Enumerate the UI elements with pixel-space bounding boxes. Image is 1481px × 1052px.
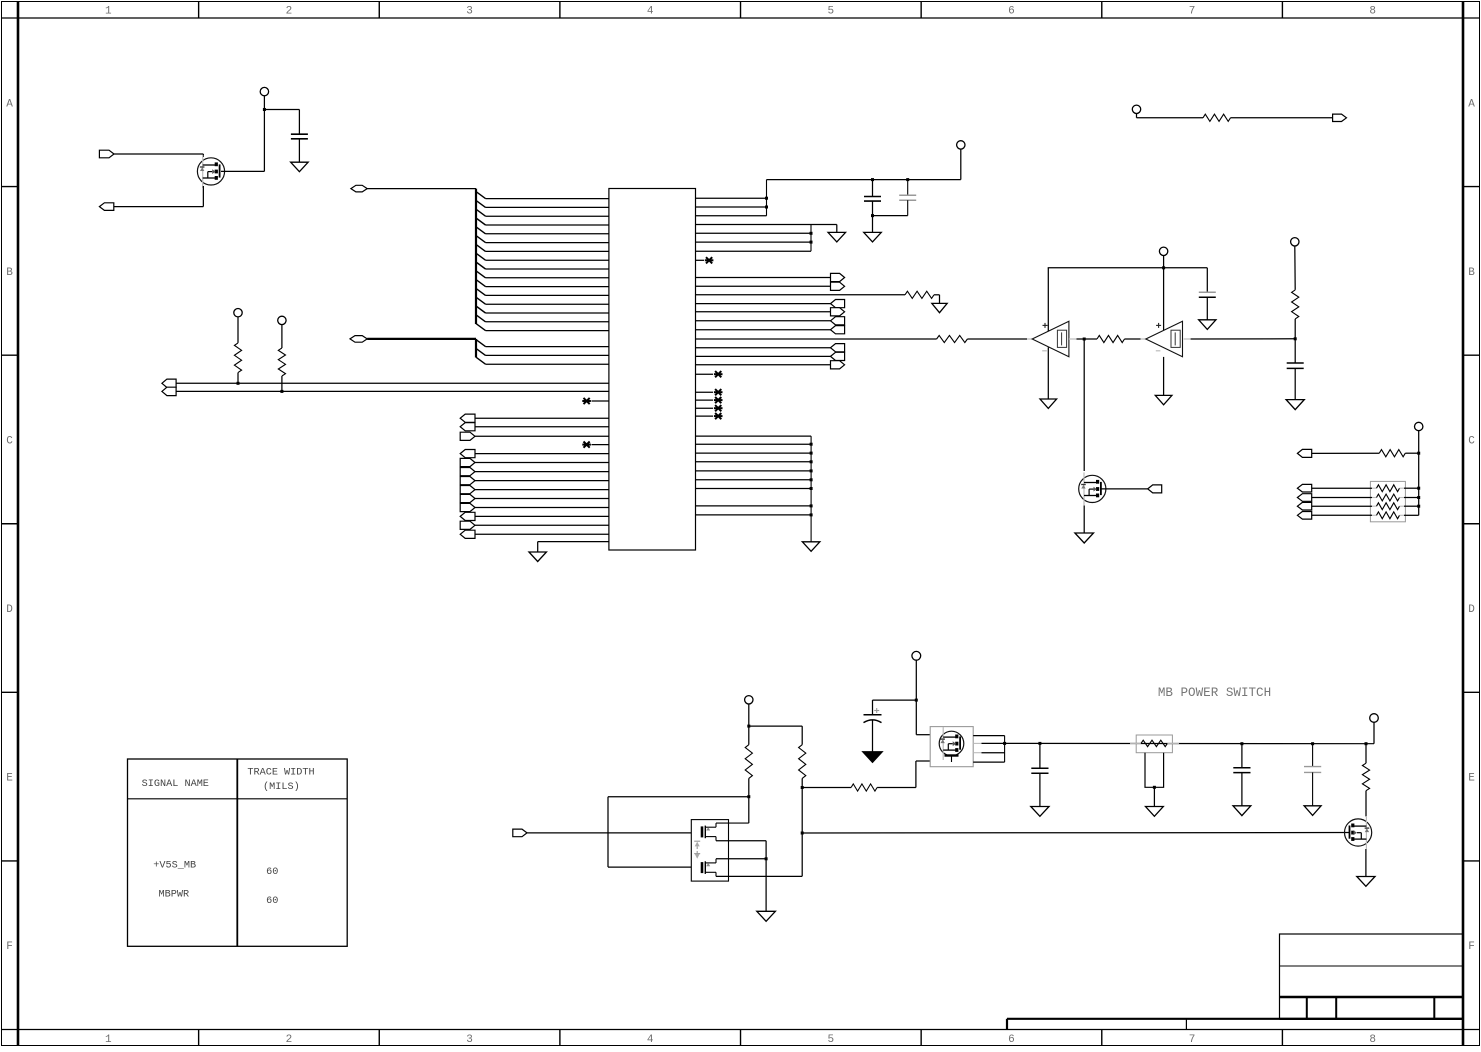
frame left strip line <box>17 2 20 1046</box>
wire R11 top lead <box>801 726 803 745</box>
frame left row divider <box>2 354 19 356</box>
capacitor C7 <box>1031 768 1048 773</box>
power symbol P8 <box>1415 422 1423 430</box>
frame top column divider <box>378 2 380 19</box>
wire C8A to R9 <box>1312 452 1380 454</box>
Q3B body diode (grey) <box>694 851 700 859</box>
wire P7 to R8 <box>1137 117 1204 119</box>
wire port M9 to U1 <box>475 524 609 526</box>
vertical tie gnd group <box>810 225 812 252</box>
svg-text:7: 7 <box>1189 6 1196 18</box>
no-connect X4 <box>714 371 723 377</box>
wire X1 <box>592 400 609 402</box>
wire P10 down <box>915 660 917 735</box>
frame bottom strip line <box>2 1029 1480 1031</box>
port C8B2 <box>1297 494 1311 502</box>
resistor R10 <box>745 745 752 779</box>
signal table outline <box>128 759 348 946</box>
IC U1 <box>609 189 696 551</box>
no-connect X5 <box>714 389 723 395</box>
capacitor C3 (grey) <box>899 195 916 200</box>
wire RS gnd stub <box>1153 787 1155 806</box>
ground G16 <box>1233 806 1251 816</box>
wire U1 right pin top group <box>696 197 767 199</box>
vertical tie top group <box>766 180 768 216</box>
port M4 <box>460 477 475 485</box>
junction dot J11 <box>1162 266 1165 269</box>
pack stub right 4 <box>1400 514 1405 516</box>
frame left row divider <box>2 186 19 188</box>
wire R4 to corner <box>934 294 940 296</box>
svg-text:A: A <box>6 98 13 110</box>
bus tap A10 <box>476 271 486 278</box>
resistor RP1-3 <box>1377 503 1400 510</box>
wire C3 bottom <box>907 200 909 215</box>
wire U1 left pin A11 <box>486 286 609 288</box>
svg-text:A: A <box>1468 98 1475 110</box>
svg-text:B: B <box>1468 267 1475 279</box>
frame top column divider <box>920 2 922 19</box>
wire U2B plus input vertical <box>1163 268 1165 331</box>
wire U2A minus down <box>1047 347 1049 399</box>
ground G10 <box>1286 400 1304 410</box>
wire R13 top lead <box>1365 744 1367 764</box>
wire C1 top <box>298 110 300 135</box>
wire node vertical up <box>263 96 265 172</box>
wire U1 pin to R6p <box>696 329 831 331</box>
frame bottom column divider <box>378 1030 380 1046</box>
wire C3 top <box>907 180 909 196</box>
svg-text:E: E <box>1468 773 1475 785</box>
frame top column divider <box>740 2 742 19</box>
bus2 vertical <box>475 339 477 358</box>
power symbol P1 <box>260 87 268 95</box>
wire C5 bottom <box>1294 368 1296 399</box>
dual MOSFET Q3 box <box>691 820 728 882</box>
U2B input grey stub <box>1141 338 1146 340</box>
port SW <box>513 829 527 837</box>
pack stub right 1 <box>1400 487 1405 489</box>
wire U1 pin rail top <box>696 435 812 437</box>
resistor pack RP1 box <box>1370 481 1405 521</box>
wire port M7 to U1 <box>475 507 609 509</box>
resistor R5 <box>937 335 968 342</box>
capacitor C9 (grey) <box>1304 767 1321 773</box>
svg-text:4: 4 <box>647 6 654 18</box>
RS grey stub left <box>1130 742 1141 744</box>
bus tap A12 <box>476 288 486 295</box>
bus tap A8 <box>476 253 486 260</box>
wire J21 to Q3B drain <box>716 858 766 860</box>
junction dot rail <box>810 504 813 507</box>
power symbol P3 <box>278 316 286 324</box>
bus tap A1 <box>476 192 486 199</box>
wire J12 down to Q2 <box>1083 339 1085 471</box>
svg-text:2: 2 <box>286 6 293 18</box>
port R4p <box>831 308 845 316</box>
wire port M4 to U1 <box>475 480 609 482</box>
wire Q2 source down <box>1083 506 1085 534</box>
wire pack to rail 2 <box>1404 497 1419 499</box>
wire C6 bottom <box>872 720 874 752</box>
ground G1 <box>291 162 309 172</box>
svg-text:60: 60 <box>266 867 278 878</box>
wire port M3 to U1 <box>475 471 609 473</box>
wire U2A output <box>1077 338 1098 340</box>
wire Q4 pin 3 <box>982 752 1005 754</box>
junction dot rail <box>810 443 813 446</box>
ground G17 <box>1304 806 1321 816</box>
port R3p <box>831 300 845 308</box>
wire R11 bottom lead <box>801 778 803 787</box>
wire R2 bottom <box>237 373 239 384</box>
wire U1 right pin to rail <box>696 461 812 463</box>
wire U1 bottom-left ground pin <box>538 541 609 543</box>
wire C6 top <box>872 700 874 715</box>
wire Q3B source pin <box>716 875 802 877</box>
wire port M1 to U1 <box>475 453 609 455</box>
MOSFET Q4 box <box>930 727 973 767</box>
capacitor C1 <box>291 134 308 139</box>
top rail <box>767 179 961 181</box>
wire U1 left pin A1 <box>486 198 609 200</box>
ground G9 <box>1155 395 1172 404</box>
wire U1 left pin A14 <box>486 312 609 314</box>
wire J20 to R12 <box>802 787 851 789</box>
bus tap A3 <box>476 209 486 216</box>
signal table column divider <box>236 759 238 946</box>
wire pack to rail 1 <box>1404 487 1419 489</box>
wire port IN1 to gate <box>114 153 203 155</box>
no-connect X8 <box>714 413 723 419</box>
port Q2OUT <box>1148 485 1162 493</box>
junction dot J29 <box>1365 742 1368 745</box>
power symbol P9 <box>745 696 753 704</box>
wire R13 to Q5 <box>1365 791 1367 817</box>
junction dot J18 <box>747 725 750 728</box>
frame bottom column divider <box>559 1030 561 1046</box>
port M9 <box>460 521 475 529</box>
port A7 <box>1333 114 1347 121</box>
wire Q1 source to port <box>114 206 204 208</box>
junction dot rail <box>810 478 813 481</box>
wire C8B1 to pack <box>1312 487 1372 489</box>
wire C4 bottom <box>1206 297 1208 320</box>
no-connect X6 <box>714 397 723 403</box>
wire C9 top <box>1312 744 1314 767</box>
RS grey stub right <box>1167 742 1179 744</box>
wire Q4 bottom pin <box>916 760 930 762</box>
wire C8B3 to pack <box>1312 505 1372 507</box>
junction dot J15 <box>1417 487 1420 490</box>
wire U1 pin to R9p <box>696 364 831 366</box>
ground G6 <box>802 542 820 552</box>
wire U1 left pin A4 <box>486 224 609 226</box>
svg-text:6: 6 <box>1008 6 1015 18</box>
wire U1 left pin B1 <box>486 346 609 348</box>
title block cell divider 2 <box>1335 997 1337 1019</box>
junction dot J21 <box>765 857 768 860</box>
Q3A drain lead <box>716 822 749 824</box>
port M2 <box>460 458 475 466</box>
svg-text:60: 60 <box>266 896 278 907</box>
ground G7 <box>1199 320 1216 330</box>
wire R10 top lead <box>748 726 750 745</box>
transistor Q4 <box>939 727 964 760</box>
wire U1 left pin A10 <box>486 277 609 279</box>
wire U1 left pin B2 <box>486 354 609 356</box>
title block thick row line <box>1280 996 1464 998</box>
svg-text:C: C <box>1468 435 1475 447</box>
wire C2 top <box>872 180 874 197</box>
wire U1 right pin to rail <box>696 488 812 490</box>
wire C8 top <box>1241 744 1243 768</box>
wire P5 stub <box>1163 256 1165 268</box>
wire U1 right pin top group <box>696 206 767 208</box>
svg-text:+V5S_MB: +V5S_MB <box>153 861 196 872</box>
junction dot J7 <box>906 178 909 181</box>
ground G3 <box>864 232 882 242</box>
no-connect X7 <box>714 405 723 411</box>
right gnd rail vertical <box>810 436 812 542</box>
op-amp U2B <box>1146 321 1183 357</box>
wire U1 right pin top group <box>696 215 767 217</box>
wire C7 bottom <box>1039 773 1041 806</box>
op-amp U2A <box>1032 321 1069 357</box>
bus tap A2 <box>476 200 486 207</box>
svg-text:5: 5 <box>828 6 835 18</box>
no-connect X3 <box>705 257 714 263</box>
wire U1 pin to R7p <box>696 347 831 349</box>
wire U1 right pin gnd group <box>696 232 812 234</box>
wire U1 pin to R4p <box>696 311 831 313</box>
pack stub left 4 <box>1372 514 1377 516</box>
wire U1 right pin to rail <box>696 452 812 454</box>
wire C8B2 to pack <box>1312 497 1372 499</box>
wire Q4 pin 1 <box>973 735 1004 737</box>
frame top column divider <box>1281 2 1283 19</box>
wire J13 to C5 <box>1294 339 1296 363</box>
ground G11 <box>1075 533 1094 543</box>
ground G14 <box>1031 807 1049 817</box>
svg-text:D: D <box>6 604 13 616</box>
svg-text:6: 6 <box>1008 1034 1015 1046</box>
wire X3 <box>696 259 705 261</box>
resistor R11 <box>799 745 806 779</box>
port C8A <box>1297 449 1311 457</box>
wire U1 left pin A8 <box>486 259 609 261</box>
wire port M2 to U1 <box>475 462 609 464</box>
wire loop to Q3 gate <box>608 866 691 868</box>
bus tap A4 <box>476 218 486 225</box>
bus tap A7 <box>476 244 486 251</box>
wire X5 <box>696 391 714 393</box>
svg-text:E: E <box>6 773 13 785</box>
junction dot J5 <box>765 206 768 209</box>
junction dot rail <box>810 460 813 463</box>
bus tap A13 <box>476 297 486 304</box>
Q3A body diode (grey) <box>694 841 700 849</box>
wire R4 corner down <box>939 295 941 304</box>
power symbol P5 <box>1159 247 1167 255</box>
wire U1 right pin gnd group <box>696 224 812 226</box>
port R7p <box>831 344 845 352</box>
bus tap A11 <box>476 280 486 287</box>
junction dot J13 <box>1294 337 1297 340</box>
frame right row divider <box>1463 860 1480 862</box>
frame right row divider <box>1463 523 1480 525</box>
junction dot J28 <box>1311 742 1314 745</box>
frame right strip line <box>1462 2 1465 1046</box>
ground G12 <box>757 911 776 921</box>
svg-text:MBPWR: MBPWR <box>159 890 190 901</box>
wire J19 left <box>608 796 749 798</box>
RS kelvin loop <box>1145 753 1164 788</box>
footer strip divider tick <box>1185 1019 1187 1030</box>
svg-text:3: 3 <box>466 6 473 18</box>
bus tap A9 <box>476 262 486 269</box>
title block bottom thick line <box>1280 1018 1464 1020</box>
port OUT1 <box>99 203 113 211</box>
wire SW to Q3 gate <box>527 832 691 834</box>
frame right row divider <box>1463 354 1480 356</box>
wire tie to ground <box>811 224 837 226</box>
transistor Q3B <box>702 859 716 877</box>
resistor R13 <box>1362 763 1369 790</box>
ground G4 <box>828 232 846 242</box>
wire U1 left pin A2 <box>486 206 609 208</box>
wire Q3B source up <box>801 788 803 877</box>
wire X6 <box>696 399 714 401</box>
svg-text:4: 4 <box>647 1034 654 1046</box>
junction dot J1 <box>263 108 266 111</box>
no-connect X1 <box>582 398 591 404</box>
capacitor C5 <box>1287 363 1304 368</box>
port M5 <box>460 486 475 494</box>
power symbol P4 <box>957 141 965 149</box>
wire R2 top <box>237 317 239 343</box>
bus tap A14 <box>476 306 486 313</box>
port M6 <box>460 494 475 502</box>
wire U1 pin to R3p <box>696 303 831 305</box>
port R8p <box>831 352 845 360</box>
junction dot J27 <box>1240 742 1243 745</box>
wire Q5 source down <box>1365 849 1367 877</box>
no-connect X2 <box>582 442 591 448</box>
power symbol P11 <box>1370 714 1379 723</box>
wire BUS2 to bus corner <box>367 338 476 340</box>
port M8 <box>460 512 475 520</box>
port M1 <box>460 450 475 458</box>
port R6p <box>831 326 845 334</box>
ground G15 <box>1146 807 1164 817</box>
port PL1 <box>162 379 176 387</box>
sense resistor RS box <box>1136 735 1172 753</box>
port IN1 <box>99 150 114 158</box>
frame bottom column divider <box>1101 1030 1103 1046</box>
wire U1 pin to R1p <box>696 277 831 279</box>
svg-text:MB POWER SWITCH: MB POWER SWITCH <box>1158 686 1271 700</box>
frame top column divider <box>559 2 561 19</box>
frame bottom column divider <box>1281 1030 1283 1046</box>
wire ground stub <box>537 542 539 552</box>
wire U1 right pin to rail <box>696 479 812 481</box>
svg-text:D: D <box>1468 604 1475 616</box>
wire R7 to J13 <box>1294 319 1296 339</box>
wire U1 left pin A13 <box>486 303 609 305</box>
wire U1 pin to R2p <box>696 285 831 287</box>
wire PL2 to U1 <box>176 390 609 392</box>
wire BUS1 to bus corner <box>367 188 476 190</box>
port R9p <box>831 361 845 369</box>
Q4 pins tie vertical <box>1004 736 1006 763</box>
frame top column divider <box>198 2 200 19</box>
bus tap A6 <box>476 236 486 243</box>
wire U1 left pin A12 <box>486 294 609 296</box>
wire pack to rail 3 <box>1404 505 1419 507</box>
port PL2 <box>162 387 176 395</box>
wire Q3A source down <box>765 841 767 859</box>
frame top column divider <box>1101 2 1103 19</box>
pack stub right 2 <box>1400 497 1405 499</box>
port C8B3 <box>1297 502 1311 510</box>
junction dot J24 <box>1003 742 1006 745</box>
wire X8 <box>696 415 714 417</box>
ground G13 (bold) <box>864 752 882 762</box>
title block outline <box>1280 934 1464 1019</box>
junction dot J20 <box>801 786 804 789</box>
junction dot J4 <box>765 197 768 200</box>
junction dot J8 <box>871 214 874 217</box>
wire U2B minus down <box>1163 357 1165 396</box>
wire X4 <box>696 373 714 375</box>
wire P7 stub <box>1136 114 1138 118</box>
wire J18 right <box>749 725 802 727</box>
switch output rail <box>1005 742 1374 744</box>
power symbol P10 <box>912 651 921 660</box>
wire U1 left pin A5 <box>486 233 609 235</box>
bus tap B1 <box>476 340 486 347</box>
wire R6 to U2B <box>1125 338 1141 340</box>
svg-text:1: 1 <box>105 6 112 18</box>
wire R3 top <box>281 325 283 348</box>
port R2p <box>831 282 845 290</box>
junction dot J10 <box>810 241 813 244</box>
pack stub left 3 <box>1372 505 1377 507</box>
wire P9 stub <box>748 704 750 726</box>
wire C3 to J8 <box>873 215 908 217</box>
wire U1 left pin A6 <box>486 242 609 244</box>
port L1 <box>460 414 475 422</box>
resistor R3 <box>278 348 285 376</box>
wire C7 top <box>1039 743 1041 768</box>
junction dot J9 <box>810 232 813 235</box>
wire J21 down <box>765 859 767 912</box>
transistor Q5 <box>1345 816 1372 849</box>
wire U1 left pin B3 <box>486 363 609 365</box>
resistor R6 <box>1097 335 1125 342</box>
wire port L3 to U1 <box>475 435 609 437</box>
svg-text:F: F <box>6 941 13 953</box>
svg-text:(MILS): (MILS) <box>263 781 300 793</box>
junction dot J19 <box>747 795 750 798</box>
wire up to Q4 pin <box>915 761 917 788</box>
wire U1 right pin gnd group <box>696 241 812 243</box>
wire C1 bottom <box>298 139 300 162</box>
wire pack to rail 4 <box>1404 514 1419 516</box>
svg-text:TRACE WIDTH: TRACE WIDTH <box>247 768 314 779</box>
junction dot J22 <box>801 832 804 835</box>
